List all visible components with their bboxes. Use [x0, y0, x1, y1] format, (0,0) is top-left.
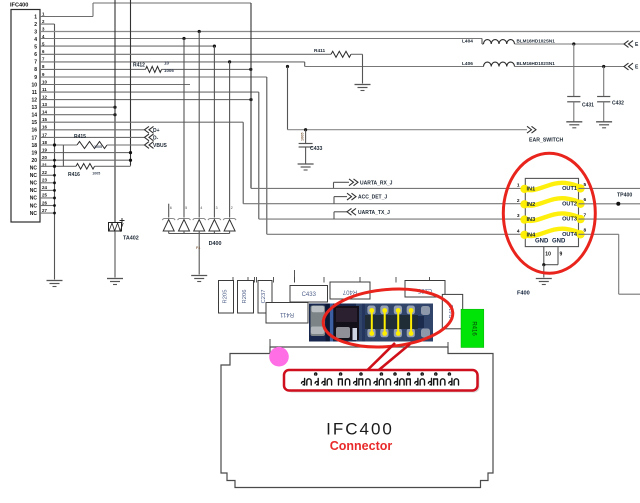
svg-text:2: 2	[231, 206, 233, 210]
svg-text:OUT2: OUT2	[562, 201, 577, 207]
svg-text:10: 10	[545, 252, 551, 258]
svg-text:20: 20	[31, 158, 37, 164]
svg-text:NC: NC	[30, 181, 38, 187]
svg-text:NC: NC	[30, 196, 38, 202]
wire OUT4 routed down right side	[579, 234, 640, 294]
wire row12 to IN2	[40, 98, 253, 101]
wire OUT1	[579, 187, 640, 189]
svg-text:18: 18	[31, 143, 37, 149]
yellow jumper wires on photo	[369, 308, 413, 336]
wire rows19-20 to x=130.5	[40, 151, 132, 162]
svg-text:8: 8	[34, 67, 37, 73]
svg-text:NC: NC	[30, 203, 38, 209]
svg-text:1006: 1006	[164, 68, 174, 73]
wire row17 D-	[40, 134, 159, 141]
svg-text:13: 13	[31, 105, 37, 111]
label Connector (red)	[330, 439, 393, 453]
wire row11 to IN3	[40, 92, 525, 219]
resistor R411 footprint	[266, 303, 308, 324]
svg-text:UARTA_RX_J: UARTA_RX_J	[360, 180, 393, 186]
svg-text:OUT3: OUT3	[562, 217, 577, 223]
wires NC pins 22-27	[40, 159, 56, 215]
svg-text:F400: F400	[517, 291, 530, 297]
svg-text:R407: R407	[342, 289, 357, 295]
resistor R407 footprint	[330, 282, 370, 299]
ground C432	[596, 122, 612, 128]
svg-text:EAR_SWITCH: EAR_SWITCH	[529, 138, 564, 144]
wire row21 through R416	[40, 145, 131, 168]
wire row4 to L404	[40, 37, 482, 44]
svg-text:9: 9	[34, 75, 37, 81]
svg-text:NC: NC	[30, 188, 38, 194]
svg-text:23: 23	[42, 178, 47, 183]
callout box with Thai note	[284, 370, 480, 393]
wire pin2 to NC bus vertical x=54.5	[40, 24, 55, 279]
svg-text:6: 6	[170, 206, 172, 210]
svg-text:16: 16	[42, 125, 47, 130]
svg-text:24: 24	[42, 185, 47, 190]
resistor R205 footprint	[219, 281, 234, 314]
svg-text:10: 10	[164, 61, 170, 66]
svg-text:L406: L406	[462, 61, 473, 67]
op-amp U F400 body	[525, 178, 578, 246]
svg-text:C237: C237	[261, 290, 267, 304]
vertical bus x=115 (TA402)	[114, 0, 116, 223]
svg-text:C433: C433	[302, 292, 317, 298]
svg-text:Connector: Connector	[330, 439, 393, 453]
svg-text:3: 3	[34, 29, 37, 35]
svg-text:12: 12	[42, 94, 47, 99]
capacitor C433	[299, 130, 323, 164]
capacitor C432	[597, 67, 624, 122]
PCB photo inset	[309, 304, 433, 342]
svg-text:14: 14	[42, 110, 47, 115]
wire OUT3	[579, 218, 640, 220]
wire IN1 row from x=251	[251, 3, 525, 188]
red callout pointer	[366, 343, 410, 372]
svg-text:19: 19	[31, 150, 37, 156]
svg-text:5: 5	[185, 206, 187, 210]
red ellipse around photo	[321, 284, 455, 352]
wire row18 VBUS through R415	[40, 142, 168, 149]
svg-text:C433: C433	[310, 146, 323, 152]
svg-text:16: 16	[31, 128, 37, 134]
svg-text:VBUS: VBUS	[153, 143, 168, 149]
diode array D400	[162, 32, 236, 275]
svg-text:R412: R412	[133, 63, 145, 69]
svg-text:OUT4: OUT4	[562, 232, 578, 238]
svg-text:18: 18	[42, 140, 47, 145]
svg-text:5: 5	[34, 45, 37, 51]
svg-text:R416: R416	[471, 321, 477, 336]
svg-text:D400: D400	[209, 241, 222, 247]
label F400	[517, 291, 530, 297]
svg-text:1005: 1005	[301, 133, 305, 141]
wire row7 to L406	[40, 60, 484, 68]
pseudo Thai text (drawn glyphs)	[302, 373, 459, 385]
svg-text:GND: GND	[535, 239, 549, 245]
wire stubs above silkscreen	[233, 270, 443, 294]
svg-text:TA402: TA402	[123, 236, 139, 242]
node E chevron L406	[624, 63, 639, 70]
svg-text:22: 22	[42, 170, 47, 175]
pink circle marker	[269, 347, 289, 367]
node E chevron L404	[624, 41, 639, 48]
svg-text:15: 15	[42, 117, 47, 122]
capacitor C235 footprint	[405, 281, 445, 298]
resistor R415	[74, 134, 107, 149]
svg-text:15: 15	[31, 120, 37, 126]
node EAR_SWITCH	[527, 126, 564, 143]
capacitor C433 footprint	[290, 286, 328, 303]
svg-text:R416: R416	[68, 172, 80, 178]
svg-text:IN3: IN3	[527, 217, 536, 223]
svg-text:9: 9	[560, 252, 563, 258]
svg-text:6: 6	[584, 197, 587, 203]
wire row9 to IN4	[40, 77, 525, 234]
svg-text:12: 12	[31, 97, 37, 103]
vertical bus x=130.5	[130, 0, 132, 166]
net stub vertical x=287.5	[288, 67, 528, 132]
svg-text:2: 2	[517, 198, 520, 204]
wire pin1 net (top staple to x=251)	[40, 3, 251, 17]
node UARTA_TX_J	[334, 208, 390, 219]
svg-text:NC: NC	[30, 211, 38, 217]
svg-text:GND: GND	[552, 239, 566, 245]
IFC400 connector outline	[221, 339, 493, 488]
svg-text:2: 2	[34, 22, 37, 28]
wire rows13-14 to TA402 vertical	[40, 106, 117, 117]
pin labels F400	[517, 182, 587, 245]
svg-text:R206: R206	[242, 290, 248, 304]
svg-text:10: 10	[31, 82, 37, 88]
capacitor C237 footprint	[258, 281, 272, 314]
inductor L404	[462, 39, 624, 46]
svg-text:19: 19	[42, 147, 47, 152]
svg-text:R415: R415	[74, 134, 86, 140]
svg-text:3: 3	[517, 213, 520, 219]
wire row8 through R412 to x=251	[40, 68, 252, 71]
node UARTA_RX_J	[334, 179, 393, 189]
svg-text:7: 7	[34, 60, 37, 66]
wire row15 to EAR_SWITCH	[40, 122, 525, 204]
svg-text:11: 11	[42, 87, 47, 92]
svg-text:D-: D-	[153, 135, 159, 141]
wire row3 long to right edge	[40, 30, 640, 33]
svg-text:R205: R205	[223, 290, 229, 304]
svg-text:17: 17	[42, 132, 47, 137]
wire row5 to diode D400-4	[40, 45, 216, 48]
wire row10	[40, 84, 190, 86]
ground TA402	[107, 279, 123, 285]
label IFC400 (bottom)	[326, 420, 394, 439]
svg-text:D+: D+	[153, 128, 160, 134]
svg-text:TP400: TP400	[617, 193, 632, 199]
svg-text:26: 26	[42, 200, 47, 205]
svg-text:IN2: IN2	[527, 202, 536, 208]
ground D400	[191, 276, 207, 282]
chip ground pins 10 and 9	[542, 247, 562, 278]
svg-text:13: 13	[42, 102, 47, 107]
svg-text:R411: R411	[279, 311, 294, 317]
svg-text:IFC400: IFC400	[326, 420, 394, 439]
svg-text:20: 20	[42, 155, 47, 160]
svg-text:6: 6	[34, 52, 37, 58]
svg-text:8: 8	[584, 228, 587, 234]
svg-text:R411: R411	[314, 48, 326, 54]
ground NC bus	[47, 281, 63, 287]
svg-text:F4: F4	[196, 246, 200, 250]
svg-text:1: 1	[34, 14, 37, 20]
svg-text:L404: L404	[462, 39, 473, 45]
svg-text:1: 1	[517, 182, 520, 188]
yellow jumper highlights inside F400	[520, 183, 584, 239]
svg-text:5: 5	[584, 182, 587, 188]
svg-text:10: 10	[42, 79, 47, 84]
red ellipse around F400	[503, 153, 595, 273]
svg-text:1005: 1005	[92, 171, 100, 175]
capacitor TA402	[109, 218, 139, 278]
svg-text:ACC_DET_J: ACC_DET_J	[358, 195, 387, 201]
wire row16 D+	[40, 126, 160, 133]
svg-text:4: 4	[200, 206, 202, 210]
svg-text:IN1: IN1	[527, 186, 536, 192]
svg-text:BLM16HD102SN1: BLM16HD102SN1	[517, 61, 556, 66]
resistor R206 footprint	[238, 281, 254, 314]
svg-text:IFC400: IFC400	[10, 3, 28, 9]
ground F400	[536, 279, 552, 285]
svg-text:NC: NC	[30, 173, 38, 179]
svg-text:IN4: IN4	[527, 232, 537, 238]
node ACC_DET_J	[334, 193, 387, 204]
svg-text:4: 4	[517, 228, 520, 234]
svg-text:1005: 1005	[94, 145, 102, 149]
svg-text:3: 3	[216, 206, 218, 210]
svg-text:11: 11	[32, 90, 38, 96]
svg-text:UARTA_TX_J: UARTA_TX_J	[358, 210, 390, 216]
svg-text:4: 4	[34, 37, 37, 43]
resistor R416	[68, 164, 100, 178]
wire OUT2 with test point TP400	[579, 193, 640, 206]
svg-text:C432: C432	[612, 101, 624, 107]
svg-text:7: 7	[584, 213, 587, 219]
connector IFC400	[10, 3, 47, 223]
resistor R416 footprint (green)	[461, 309, 484, 347]
svg-text:14: 14	[31, 113, 37, 119]
svg-text:25: 25	[42, 193, 47, 198]
resistor R415 footprint	[442, 294, 462, 328]
wire row6 to R411	[0, 0, 1, 1]
svg-text:OUT1: OUT1	[562, 186, 577, 192]
svg-text:17: 17	[31, 135, 37, 141]
ground C433	[298, 164, 314, 170]
inductor L406	[462, 61, 624, 68]
ground C431	[566, 122, 582, 128]
capacitor C431	[567, 44, 594, 122]
svg-text:C431: C431	[582, 103, 594, 109]
svg-text:BLM16HD102SN1: BLM16HD102SN1	[517, 39, 556, 44]
svg-text:27: 27	[42, 208, 47, 213]
resistor R411	[40, 48, 363, 84]
resistor R412	[133, 61, 174, 73]
svg-text:NC: NC	[30, 166, 38, 172]
ground R411	[355, 85, 371, 91]
